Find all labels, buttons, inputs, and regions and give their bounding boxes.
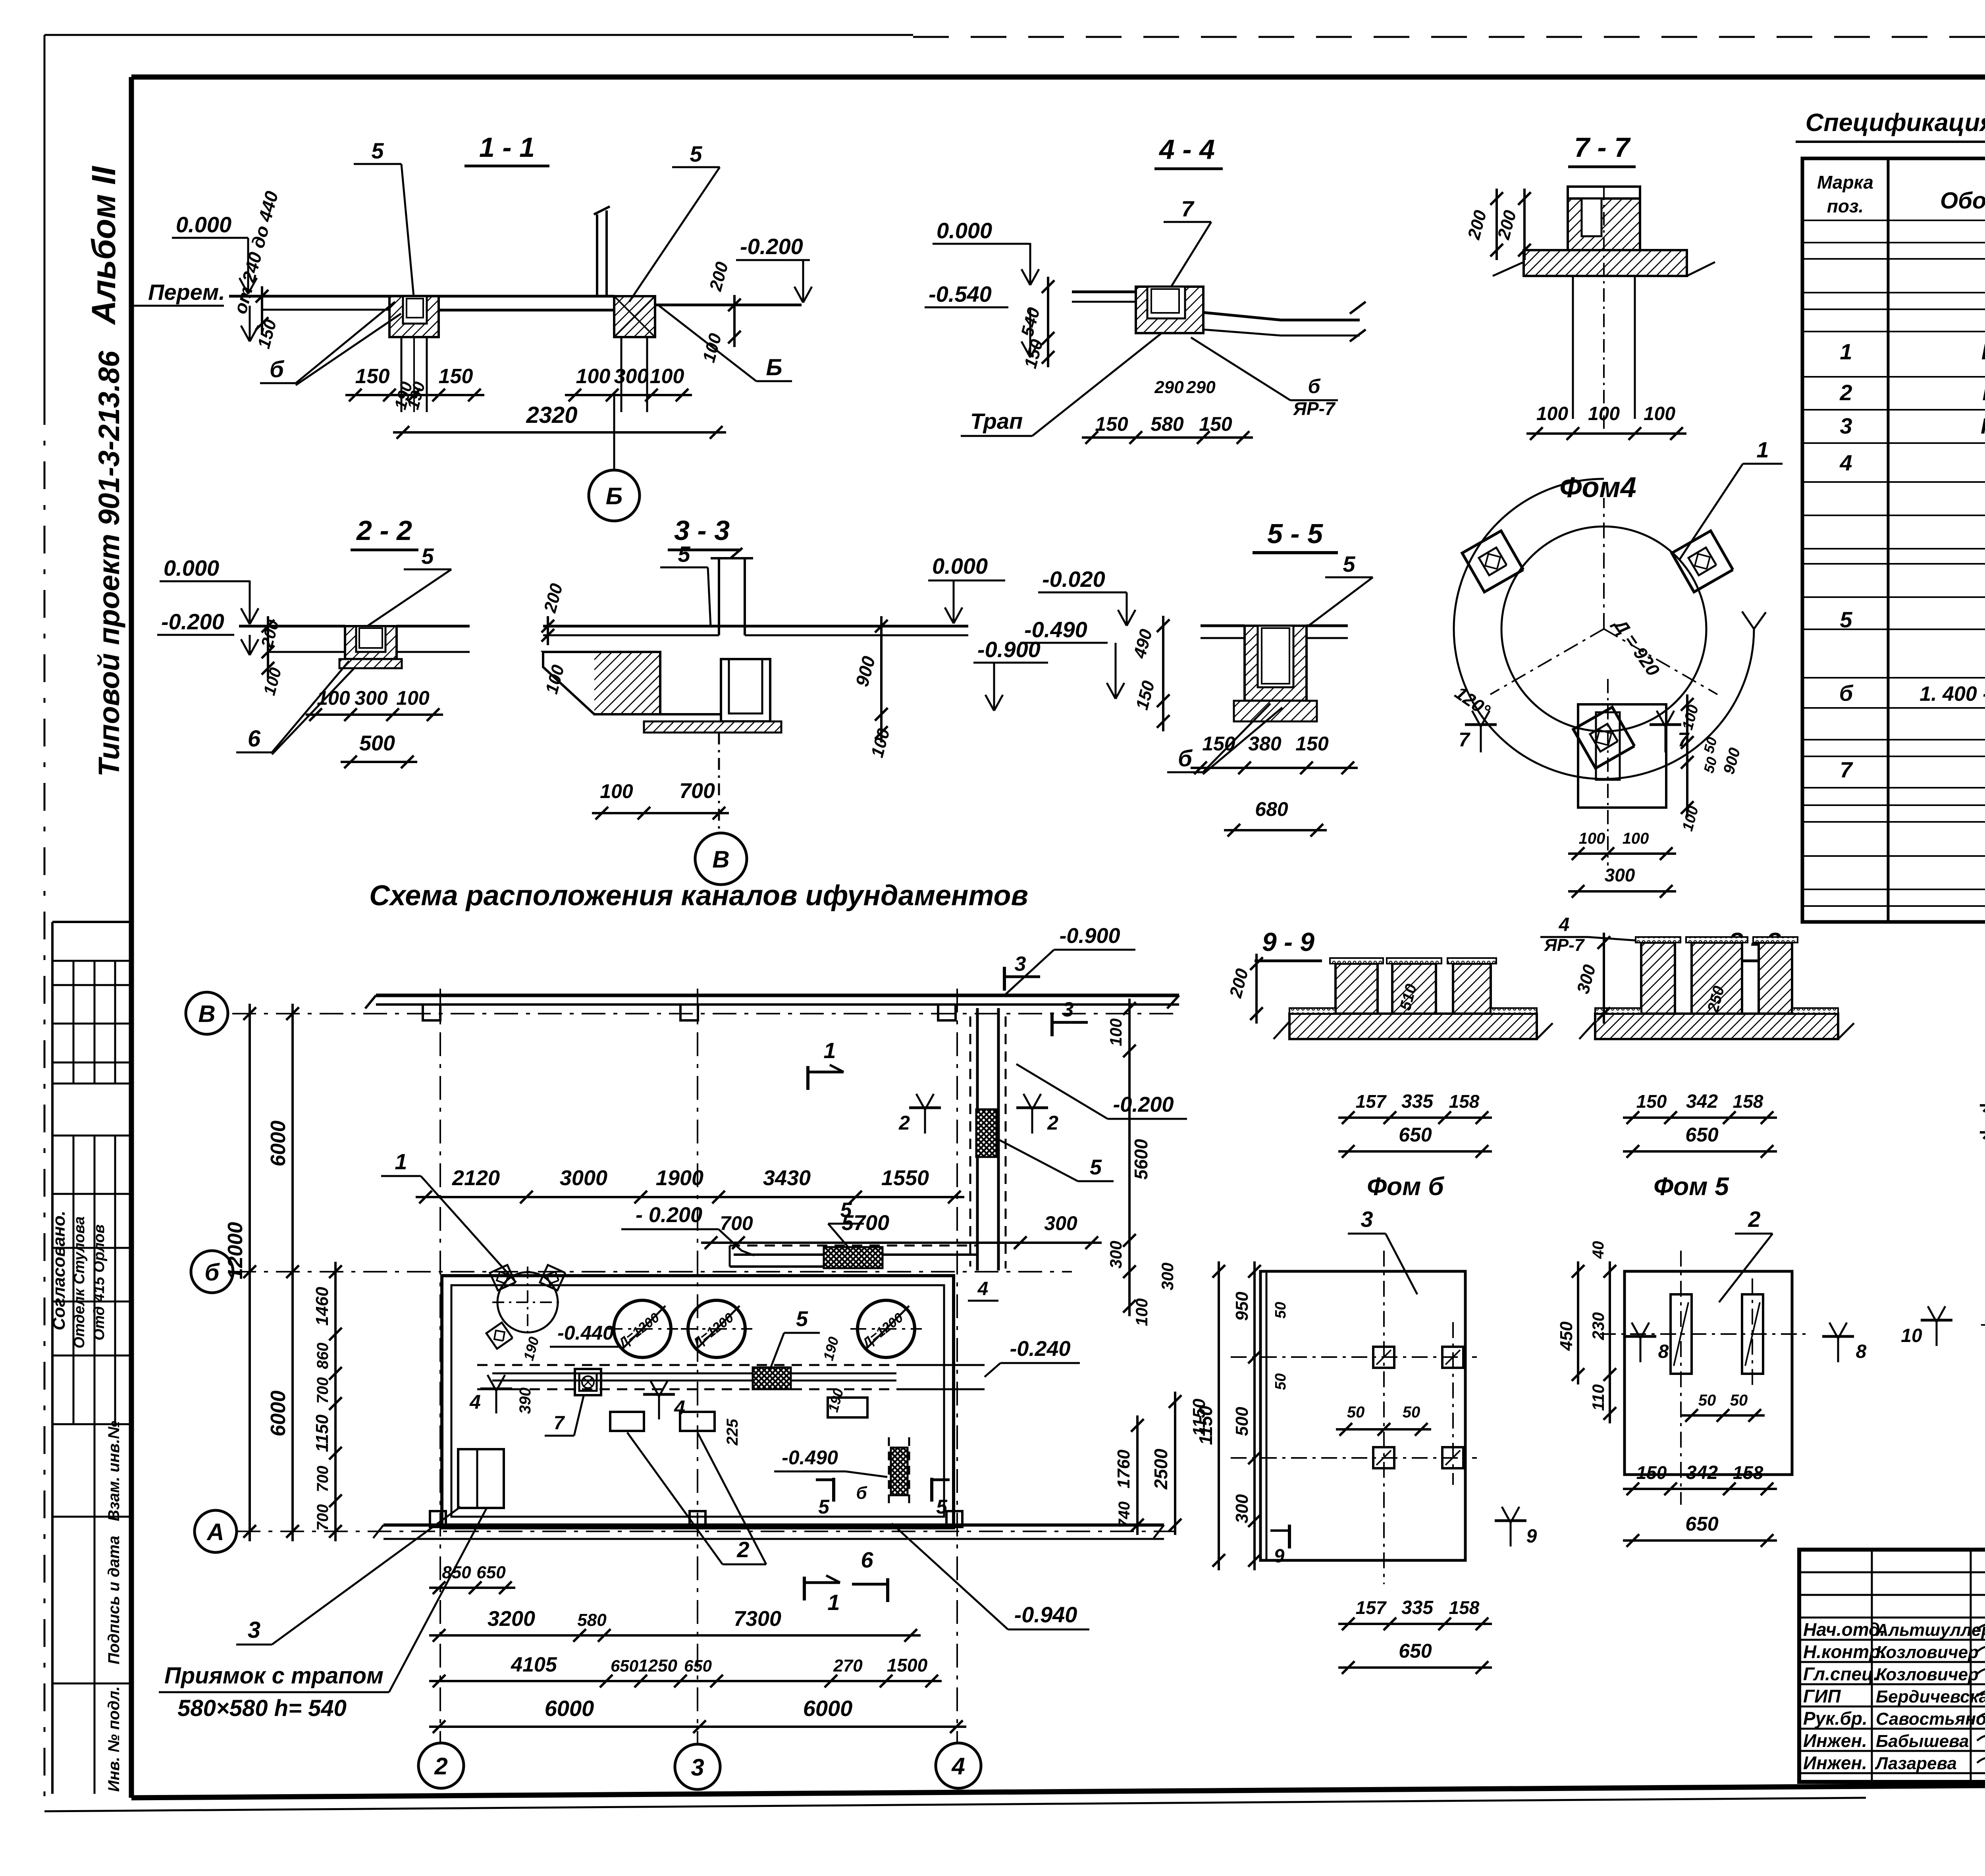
- svg-text:1: 1: [1756, 437, 1769, 462]
- svg-text:0.000: 0.000: [164, 555, 219, 580]
- section 2-2: [157, 515, 470, 768]
- svg-text:225: 225: [724, 1419, 741, 1446]
- svg-text:650: 650: [476, 1563, 506, 1582]
- svg-text:150: 150: [355, 365, 390, 388]
- left margin label otdelka: [71, 1217, 88, 1349]
- svg-text:2: 2: [434, 1753, 447, 1780]
- svg-text:158: 158: [1449, 1091, 1480, 1112]
- svg-text:50: 50: [1730, 1392, 1748, 1409]
- svg-text:Фом4: Фом4: [1559, 472, 1636, 503]
- svg-text:Трап: Трап: [970, 409, 1023, 434]
- svg-text:10: 10: [1901, 1325, 1922, 1346]
- svg-text:Савостьянова: Савостьянова: [1876, 1709, 1985, 1729]
- svg-text:500: 500: [359, 731, 395, 755]
- svg-text:700: 700: [314, 1466, 331, 1492]
- svg-text:1250: 1250: [638, 1656, 677, 1675]
- svg-text:-0.200: -0.200: [1113, 1093, 1174, 1116]
- svg-text:-0.940: -0.940: [1014, 1602, 1077, 1627]
- svg-text:300: 300: [355, 687, 388, 709]
- svg-text:-0.440: -0.440: [557, 1322, 614, 1344]
- section 7-7: [1464, 132, 1715, 440]
- svg-text:Согласовано.: Согласовано.: [49, 1211, 69, 1330]
- svg-text:ЯР-7: ЯР-7: [1544, 935, 1585, 955]
- svg-text:1: 1: [827, 1590, 840, 1615]
- svg-text:4: 4: [469, 1391, 481, 1413]
- svg-text:2: 2: [898, 1112, 910, 1134]
- svg-text:1150: 1150: [312, 1414, 332, 1452]
- svg-text:2: 2: [736, 1537, 749, 1562]
- svg-text:860: 860: [314, 1343, 331, 1369]
- svg-text:-0.490: -0.490: [1024, 617, 1087, 642]
- svg-text:50: 50: [1403, 1404, 1420, 1421]
- specification table: [1796, 109, 1985, 922]
- left margin text Album II: [85, 166, 122, 325]
- plan dimensions: [159, 999, 1209, 1733]
- svg-text:300: 300: [1158, 1263, 1177, 1290]
- svg-text:7: 7: [1840, 757, 1853, 782]
- svg-text:300: 300: [1106, 1241, 1125, 1269]
- svg-text:150: 150: [1295, 733, 1329, 755]
- svg-text:100: 100: [1579, 830, 1605, 847]
- svg-text:580: 580: [1151, 413, 1184, 435]
- plan title: [369, 880, 1028, 912]
- svg-text:Инв. № подл.: Инв. № подл.: [105, 1686, 123, 1792]
- svg-text:158: 158: [1733, 1462, 1763, 1483]
- left margin label podpis: [105, 1536, 123, 1664]
- svg-text:3000: 3000: [560, 1166, 607, 1190]
- svg-text:150: 150: [1095, 413, 1128, 435]
- svg-text:580: 580: [577, 1610, 607, 1630]
- svg-text:1900: 1900: [656, 1166, 703, 1190]
- svg-text:450: 450: [1557, 1321, 1576, 1351]
- svg-text:-0.020: -0.020: [1042, 567, 1105, 592]
- svg-text:12000: 12000: [224, 1222, 247, 1280]
- svg-text:6000: 6000: [267, 1120, 290, 1166]
- svg-text:Отд 415 Орлов: Отд 415 Орлов: [91, 1224, 108, 1340]
- svg-text:-0.900: -0.900: [1059, 924, 1120, 948]
- svg-text:Перем.: Перем.: [148, 280, 225, 305]
- svg-text:ГИП: ГИП: [1803, 1686, 1841, 1706]
- svg-text:40: 40: [1590, 1241, 1607, 1259]
- svg-text:300: 300: [1605, 865, 1635, 885]
- svg-text:Гл.спец.: Гл.спец.: [1803, 1664, 1879, 1684]
- svg-text:5: 5: [1840, 607, 1852, 632]
- svg-text:5: 5: [678, 542, 690, 567]
- svg-text:5: 5: [1090, 1155, 1102, 1179]
- svg-text:Альбом II: Альбом II: [85, 166, 122, 325]
- svg-text:110: 110: [1589, 1384, 1607, 1411]
- svg-text:2 - 2: 2 - 2: [356, 515, 412, 546]
- detail plate 2: [1557, 1207, 1867, 1547]
- svg-text:300: 300: [614, 365, 649, 388]
- svg-text:700: 700: [314, 1504, 331, 1531]
- svg-text:335: 335: [1401, 1597, 1434, 1618]
- svg-text:290: 290: [1154, 378, 1184, 397]
- svg-text:650: 650: [611, 1656, 638, 1675]
- svg-text:Фом 5: Фом 5: [1654, 1172, 1729, 1201]
- svg-text:5: 5: [796, 1307, 808, 1331]
- svg-text:7 - 7: 7 - 7: [1574, 132, 1631, 163]
- svg-text:580×580 h= 540: 580×580 h= 540: [177, 1695, 347, 1721]
- svg-text:Бердичевская: Бердичевская: [1876, 1687, 1985, 1706]
- svg-text:3: 3: [1062, 998, 1074, 1021]
- svg-text:342: 342: [1686, 1462, 1718, 1483]
- svg-text:100: 100: [1623, 830, 1649, 847]
- svg-text:Фом б: Фом б: [1367, 1172, 1445, 1201]
- svg-text:2: 2: [1748, 1207, 1760, 1232]
- svg-text:Спецификация к схеме расположе: Спецификация к схеме расположения канало…: [1806, 109, 1985, 137]
- svg-text:Инжен.: Инжен.: [1803, 1753, 1867, 1773]
- svg-text:- 0.200: - 0.200: [636, 1203, 702, 1227]
- svg-text:Отделк Стулова: Отделк Стулова: [71, 1217, 88, 1349]
- svg-text:-0.490: -0.490: [782, 1446, 838, 1469]
- svg-text:6000: 6000: [267, 1390, 290, 1436]
- svg-text:Лазарева: Лазарева: [1875, 1754, 1957, 1773]
- svg-text:5600: 5600: [1131, 1139, 1151, 1180]
- section 9-9 and Fom6: [1226, 927, 1553, 1201]
- section 3-3: [540, 515, 1048, 885]
- svg-text:Взам. инв.№: Взам. инв.№: [105, 1421, 123, 1521]
- svg-text:5: 5: [936, 1496, 948, 1518]
- svg-text:700: 700: [720, 1212, 753, 1234]
- svg-text:50: 50: [1272, 1302, 1289, 1319]
- section 4-4: [925, 134, 1366, 444]
- left margin stamp boxes: [52, 922, 131, 1794]
- svg-text:В: В: [198, 1001, 215, 1027]
- svg-text:50: 50: [1698, 1392, 1716, 1409]
- svg-text:1: 1: [1840, 339, 1852, 364]
- svg-text:8: 8: [1856, 1341, 1867, 1362]
- svg-text:650: 650: [1399, 1124, 1432, 1146]
- svg-text:-0.540: -0.540: [929, 281, 992, 307]
- svg-text:В: В: [712, 846, 729, 873]
- left margin label otd415: [91, 1224, 108, 1340]
- svg-text:Н.контр.: Н.контр.: [1803, 1641, 1885, 1662]
- svg-text:2500: 2500: [1151, 1448, 1171, 1490]
- svg-text:100: 100: [1106, 1018, 1125, 1046]
- svg-text:7: 7: [1181, 196, 1195, 221]
- svg-text:4: 4: [951, 1753, 965, 1780]
- title block: [1799, 1550, 1985, 1783]
- svg-text:4: 4: [1559, 914, 1570, 935]
- svg-text:б: б: [1308, 375, 1321, 397]
- svg-text:Обозначение: Обозначение: [1940, 188, 1985, 214]
- svg-text:Приямок с трапом: Приямок с трапом: [164, 1663, 384, 1689]
- svg-text:100: 100: [600, 780, 633, 802]
- section 5-5: [928, 518, 1373, 837]
- svg-text:50: 50: [1272, 1373, 1289, 1390]
- svg-text:650: 650: [1685, 1124, 1719, 1146]
- svg-text:3200: 3200: [488, 1607, 535, 1631]
- left margin text project code: [93, 351, 125, 777]
- svg-text:5: 5: [371, 138, 384, 163]
- svg-text:5: 5: [421, 544, 434, 569]
- detail Fom4: [1451, 437, 1783, 898]
- svg-text:380: 380: [1248, 733, 1282, 755]
- svg-text:4105: 4105: [511, 1653, 557, 1676]
- svg-text:9: 9: [1274, 1546, 1285, 1567]
- svg-text:700: 700: [679, 779, 715, 803]
- svg-text:1550: 1550: [881, 1166, 929, 1190]
- svg-text:1: 1: [823, 1038, 836, 1063]
- svg-text:Нач.отд.: Нач.отд.: [1803, 1619, 1885, 1640]
- svg-text:950: 950: [1232, 1292, 1252, 1321]
- svg-text:КЖ - 8: КЖ - 8: [1982, 380, 1985, 405]
- left margin label inv: [105, 1686, 123, 1792]
- svg-text:Б: Б: [766, 355, 782, 380]
- svg-text:Схема расположения каналов иф: Схема расположения каналов ифундаментов: [369, 880, 1028, 912]
- svg-text:100: 100: [1132, 1298, 1151, 1326]
- svg-text:100: 100: [1536, 403, 1568, 424]
- svg-text:2: 2: [1839, 380, 1852, 405]
- svg-text:ЯР-7: ЯР-7: [1293, 398, 1336, 419]
- svg-text:8: 8: [1658, 1341, 1669, 1362]
- svg-text:7: 7: [554, 1413, 565, 1434]
- svg-text:1460: 1460: [312, 1287, 332, 1326]
- svg-text:6000: 6000: [803, 1696, 853, 1721]
- svg-text:1: 1: [395, 1149, 407, 1174]
- svg-text:Альтшуллер: Альтшуллер: [1875, 1620, 1985, 1640]
- svg-text:3430: 3430: [763, 1166, 811, 1190]
- svg-text:50: 50: [1347, 1404, 1365, 1421]
- svg-text:7300: 7300: [734, 1607, 781, 1631]
- svg-text:342: 342: [1686, 1091, 1718, 1112]
- svg-text:0.000: 0.000: [937, 218, 992, 243]
- svg-text:1 - 1: 1 - 1: [479, 132, 535, 163]
- svg-text:390: 390: [516, 1388, 534, 1414]
- svg-text:б: б: [270, 357, 285, 382]
- svg-text:Рук.бр.: Рук.бр.: [1803, 1708, 1867, 1729]
- svg-text:4: 4: [977, 1278, 989, 1300]
- svg-text:5 - 5: 5 - 5: [1267, 518, 1323, 549]
- svg-text:5700: 5700: [842, 1211, 889, 1235]
- svg-text:270: 270: [833, 1656, 863, 1675]
- svg-text:Типовой проект 901-3-213.86: Типовой проект 901-3-213.86: [93, 351, 125, 777]
- section 10-10 and Fom7: [1980, 923, 1985, 1187]
- svg-text:Б: Б: [606, 483, 622, 509]
- svg-text:К ж - б: К ж - б: [1981, 413, 1985, 438]
- Fom7 circle plan: [1901, 1257, 1985, 1393]
- svg-text:К ж - 8: К ж - 8: [1981, 339, 1985, 364]
- svg-text:650: 650: [1685, 1513, 1719, 1535]
- svg-text:150: 150: [1202, 733, 1235, 755]
- svg-text:-0.240: -0.240: [1010, 1337, 1070, 1361]
- svg-text:157: 157: [1356, 1597, 1387, 1618]
- svg-text:650: 650: [684, 1656, 712, 1675]
- svg-text:300: 300: [1232, 1494, 1252, 1523]
- svg-text:3: 3: [691, 1754, 704, 1781]
- svg-text:2120: 2120: [452, 1166, 500, 1190]
- svg-text:500: 500: [1232, 1407, 1252, 1436]
- svg-text:4 - 4: 4 - 4: [1158, 134, 1215, 165]
- svg-text:3: 3: [1840, 413, 1852, 438]
- left margin label soglasovano: [49, 1211, 69, 1330]
- svg-text:4: 4: [1839, 450, 1852, 475]
- svg-text:Подпись и дата: Подпись и дата: [105, 1536, 123, 1664]
- plan walls and details: [186, 924, 1187, 1789]
- svg-text:5: 5: [818, 1496, 830, 1518]
- svg-text:5: 5: [1343, 551, 1355, 576]
- svg-text:0.000: 0.000: [932, 553, 988, 578]
- svg-text:150: 150: [1636, 1462, 1667, 1483]
- svg-text:9: 9: [1526, 1526, 1537, 1547]
- left margin label vzam: [105, 1421, 123, 1521]
- svg-text:3: 3: [1015, 952, 1026, 976]
- svg-text:740: 740: [1116, 1502, 1133, 1528]
- detail plate 3: [1195, 1207, 1537, 1674]
- svg-text:5: 5: [690, 141, 702, 166]
- svg-text:230: 230: [1589, 1312, 1607, 1340]
- svg-text:100: 100: [1644, 403, 1675, 424]
- svg-text:6: 6: [248, 726, 261, 752]
- svg-text:6: 6: [861, 1547, 873, 1572]
- svg-text:100: 100: [396, 687, 430, 709]
- svg-text:1150: 1150: [1195, 1406, 1216, 1445]
- svg-text:150: 150: [439, 365, 473, 388]
- svg-text:Марка: Марка: [1817, 172, 1873, 193]
- svg-text:3: 3: [248, 1617, 260, 1643]
- svg-text:поз.: поз.: [1827, 196, 1864, 216]
- svg-text:300: 300: [1044, 1212, 1077, 1234]
- svg-text:б: б: [204, 1259, 220, 1286]
- svg-text:157: 157: [1356, 1091, 1387, 1112]
- svg-text:-0.200: -0.200: [161, 609, 224, 634]
- svg-text:б: б: [1839, 681, 1854, 706]
- svg-text:158: 158: [1449, 1597, 1480, 1618]
- svg-text:7: 7: [1459, 729, 1470, 751]
- svg-text:2: 2: [1047, 1112, 1058, 1134]
- section 8-8 and Fom5: [1540, 914, 1854, 1201]
- svg-text:150: 150: [1199, 413, 1232, 435]
- svg-text:335: 335: [1401, 1091, 1434, 1112]
- svg-text:Бабышева: Бабышева: [1876, 1731, 1969, 1751]
- svg-text:-0.200: -0.200: [740, 234, 803, 259]
- svg-text:650: 650: [1399, 1640, 1432, 1662]
- svg-text:А: А: [206, 1519, 224, 1545]
- svg-text:6000: 6000: [545, 1696, 594, 1721]
- svg-text:0.000: 0.000: [176, 212, 231, 237]
- svg-text:Козловичер: Козловичер: [1876, 1665, 1979, 1684]
- svg-text:158: 158: [1733, 1091, 1763, 1112]
- svg-text:1500: 1500: [887, 1655, 928, 1675]
- svg-text:9 - 9: 9 - 9: [1262, 927, 1314, 956]
- svg-text:2320: 2320: [526, 402, 577, 428]
- svg-text:б: б: [856, 1483, 867, 1503]
- svg-text:680: 680: [1255, 798, 1288, 820]
- svg-text:3: 3: [1361, 1207, 1373, 1232]
- svg-text:290: 290: [1186, 378, 1216, 397]
- svg-text:100: 100: [1588, 403, 1620, 424]
- svg-text:150: 150: [1636, 1091, 1667, 1112]
- section 1-1: [131, 132, 812, 521]
- svg-text:700: 700: [314, 1377, 331, 1404]
- svg-text:100: 100: [650, 365, 684, 388]
- svg-text:100: 100: [576, 365, 611, 388]
- svg-text:Инжен.: Инжен.: [1803, 1730, 1867, 1751]
- svg-text:Козловичер: Козловичер: [1876, 1643, 1979, 1662]
- svg-text:1760: 1760: [1114, 1450, 1133, 1488]
- svg-text:1. 400 -15 Вып. 0.1: 1. 400 -15 Вып. 0.1: [1919, 683, 1985, 706]
